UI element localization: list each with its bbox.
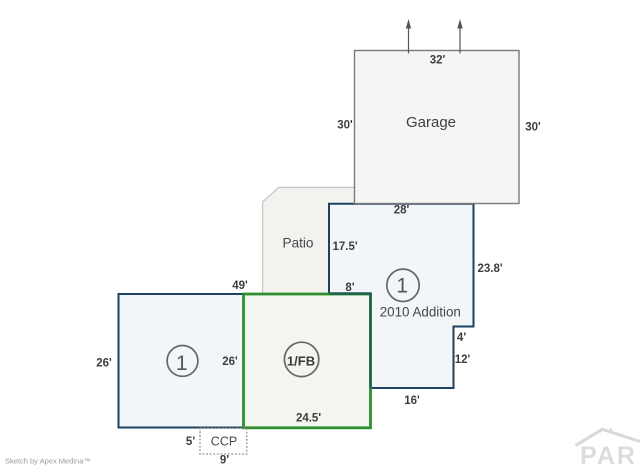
svg-text:CCP: CCP — [211, 435, 237, 449]
svg-text:2010 Addition: 2010 Addition — [380, 305, 461, 320]
2010 addition room — [329, 204, 474, 388]
svg-text:12': 12' — [455, 354, 471, 366]
patio fill — [263, 187, 355, 293]
svg-text:24.5': 24.5' — [296, 413, 321, 425]
svg-text:1: 1 — [396, 274, 408, 297]
shared edge addition west blend — [329, 294, 371, 389]
svg-text:Patio: Patio — [283, 236, 314, 251]
svg-text:5': 5' — [186, 436, 195, 448]
svg-text:8': 8' — [345, 282, 354, 294]
patio outline — [263, 187, 355, 293]
svg-text:30': 30' — [337, 119, 353, 131]
garage door arrow right — [457, 19, 462, 53]
svg-text:PAR: PAR — [580, 442, 637, 469]
svg-text:16': 16' — [404, 395, 420, 407]
basement circle 1/FB — [284, 342, 318, 376]
garage door arrow left — [406, 19, 411, 53]
full basement room green — [244, 294, 371, 428]
svg-text:1: 1 — [176, 352, 188, 375]
svg-text:26': 26' — [96, 357, 112, 369]
svg-text:30': 30' — [525, 122, 541, 134]
garage room — [355, 51, 520, 204]
svg-text:32': 32' — [430, 55, 446, 67]
main room left — [119, 294, 244, 428]
addition story circle 1 — [387, 269, 419, 301]
svg-text:23.8': 23.8' — [478, 263, 503, 275]
svg-text:4': 4' — [457, 332, 466, 344]
svg-text:1/FB: 1/FB — [287, 353, 315, 368]
svg-text:26': 26' — [222, 356, 238, 368]
svg-text:28': 28' — [394, 205, 410, 217]
svg-text:17.5': 17.5' — [333, 241, 358, 253]
watermark roof logo — [576, 428, 640, 446]
main room story circle 1 — [167, 346, 198, 377]
svg-text:Garage: Garage — [406, 114, 456, 131]
covered concrete patio dashed box — [200, 428, 247, 454]
svg-text:49': 49' — [232, 280, 248, 292]
svg-text:Sketch by Apex Medina™: Sketch by Apex Medina™ — [5, 457, 91, 466]
svg-text:9': 9' — [220, 455, 229, 467]
